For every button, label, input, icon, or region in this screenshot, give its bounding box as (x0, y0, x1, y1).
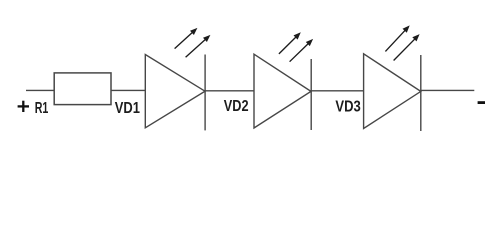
wire (311, 90, 363, 92)
wire (111, 89, 145, 91)
wire (205, 90, 254, 92)
LED VD1 (145, 55, 205, 131)
svg-text:VD2: VD2 (224, 98, 249, 115)
LED VD3 (364, 54, 421, 131)
resistor R1 (54, 73, 111, 105)
svg-text:VD3: VD3 (335, 99, 361, 116)
svg-text:R1: R1 (35, 100, 49, 117)
LED VD2 light arrows (279, 32, 313, 61)
wire (26, 89, 54, 91)
minus terminal (478, 101, 485, 104)
LED VD3 light arrows (385, 25, 419, 60)
plus terminal (18, 101, 29, 112)
svg-text:VD1: VD1 (115, 100, 141, 117)
LED VD1 light arrows (175, 28, 211, 57)
LED VD2 (254, 54, 311, 130)
wire (421, 89, 475, 91)
